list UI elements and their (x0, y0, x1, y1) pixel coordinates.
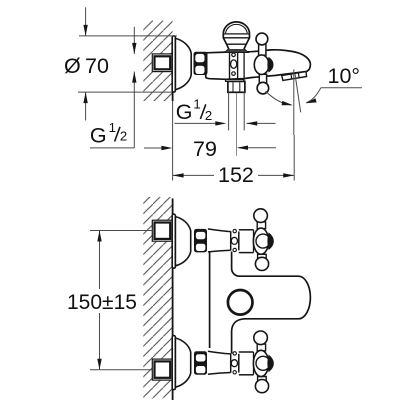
svg-text:Ø 70: Ø 70 (64, 54, 109, 78)
svg-text:150±15: 150±15 (67, 291, 137, 314)
svg-text:1: 1 (193, 96, 200, 111)
svg-text:152: 152 (218, 163, 254, 187)
svg-text:2: 2 (205, 108, 212, 123)
svg-text:G: G (90, 123, 107, 147)
svg-text:2: 2 (120, 129, 127, 144)
svg-text:1: 1 (109, 120, 116, 135)
svg-text:G: G (176, 100, 193, 124)
svg-text:10°: 10° (328, 64, 361, 88)
svg-text:79: 79 (193, 137, 217, 161)
